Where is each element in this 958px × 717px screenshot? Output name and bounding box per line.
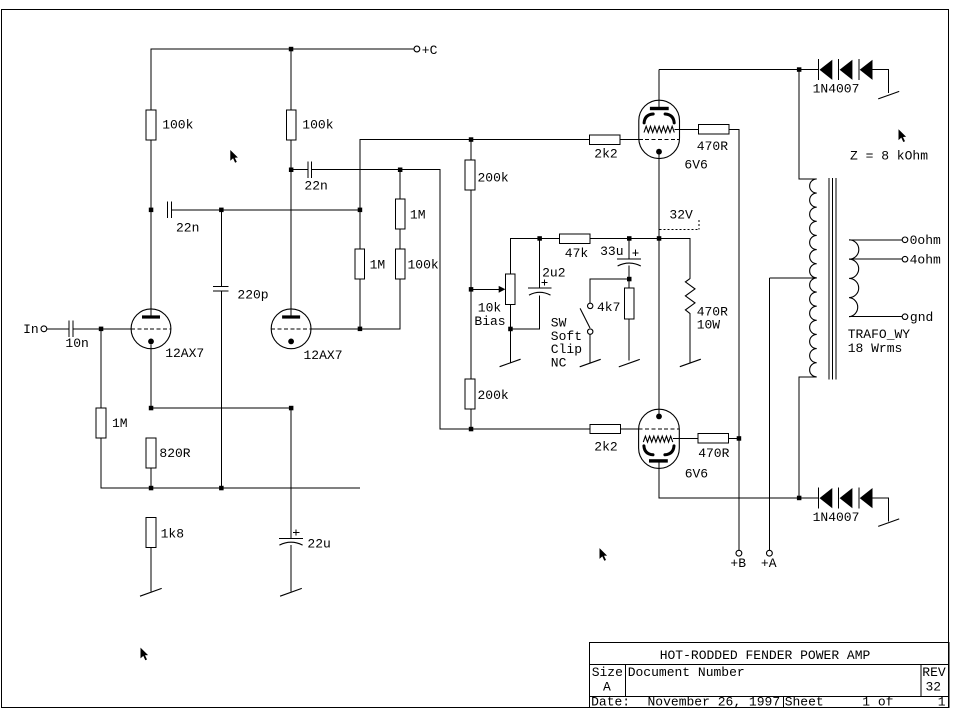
wire R2 to ground rail — [101, 438, 151, 488]
resistor R10 200k (grid leak lower 6V6) — [465, 379, 475, 409]
svg-text:47k: 47k — [565, 246, 589, 261]
junction rail / R5 — [149, 486, 154, 491]
junction bias wiper node — [469, 287, 474, 292]
resistor R2 1M (grid leak U1A) — [96, 408, 106, 438]
resistor R14 2k2 (grid stop upper 6V6) — [590, 135, 620, 144]
svg-text:470R: 470R — [698, 446, 729, 461]
diode D3 1N4007 — [859, 59, 873, 80]
junction 2u2 tap on 47k row — [537, 236, 542, 241]
wire R8 down to grid row U1B — [311, 279, 400, 329]
ground (RV1) — [500, 359, 521, 367]
wire node A to top 6V6 grid row — [360, 140, 590, 210]
svg-text:18 Wrms: 18 Wrms — [848, 341, 903, 356]
ground (C5) — [280, 588, 302, 596]
tube V1 plate bar — [650, 107, 669, 110]
junction rail / C4 column — [219, 486, 224, 491]
wire plate U1B to C6 — [291, 169, 307, 171]
wire V2 screen to R16 — [673, 437, 698, 439]
wire R7 to R8 — [399, 229, 401, 249]
svg-text:12AX7: 12AX7 — [165, 346, 204, 361]
wire R13 to ground — [689, 314, 691, 363]
junction cathode U1B — [289, 406, 294, 411]
tube U1A 12AX7 envelope — [131, 309, 171, 349]
wire center tap to +A terminal — [768, 278, 770, 550]
wire R9 column top — [470, 140, 472, 161]
wire R7 column from C6 net — [399, 170, 401, 199]
junction cathode column on row — [657, 236, 662, 241]
tube V2 beam plates — [644, 446, 653, 455]
junction C6 net / R7 divider — [398, 168, 403, 173]
potentiometer RV1 10k Bias body — [506, 274, 516, 304]
diode D5 1N4007 — [839, 487, 853, 508]
tube V1 6V6 envelope — [639, 100, 680, 158]
wire R17 to grid of V2 — [621, 428, 639, 430]
svg-text:1k8: 1k8 — [161, 526, 184, 541]
svg-text:1 of: 1 of — [862, 695, 893, 710]
junction top grid row / R9 — [469, 137, 474, 142]
wire R6 to grid node U1B — [359, 279, 361, 329]
wire C2 to grid of U1A — [74, 328, 132, 330]
wire grid node down to R2 — [100, 329, 102, 408]
svg-text:1M: 1M — [112, 416, 128, 431]
potentiometer RV1 wiper arrowhead — [499, 286, 506, 293]
junction RV1 bottom / 2u2 return — [508, 327, 513, 332]
wire V1 screen to R15 — [674, 128, 698, 130]
wire R16 to +B column — [729, 437, 739, 439]
capacitor C5 22u polarity + — [293, 530, 299, 536]
resistor R5 1k8 — [146, 518, 156, 548]
svg-text:6V6: 6V6 — [685, 467, 708, 482]
tube U1B plate bar — [282, 315, 300, 318]
svg-text:+C: +C — [422, 43, 438, 58]
tube V2 screen grid zigzag — [643, 436, 672, 442]
resistor R4 820R (cathode U1A) — [146, 438, 156, 468]
svg-text:1: 1 — [938, 695, 946, 710]
wire cathode tie U1A-U1B — [151, 407, 291, 409]
title block column line Sheet — [782, 696, 784, 707]
wire D6 to ground — [873, 498, 889, 522]
resistor R6 1M (paraphase divider upper) — [355, 249, 365, 279]
capacitor C8 33u plates — [617, 258, 641, 260]
wire RV1 top to 47k row — [510, 238, 559, 274]
svg-text:220p: 220p — [237, 287, 268, 302]
switch SW1 lever — [580, 308, 590, 328]
tube U1B 12AX7 envelope — [271, 309, 311, 349]
wire secondary tap gnd — [849, 316, 902, 318]
diode D6 1N4007 — [859, 487, 873, 508]
svg-text:1N4007: 1N4007 — [813, 82, 860, 97]
tube V2 cathode dot — [656, 414, 662, 420]
wire C5 to ground — [290, 545, 292, 592]
svg-text:A: A — [603, 679, 611, 694]
transformer T1 primary winding lower — [810, 278, 817, 377]
svg-text:470R: 470R — [697, 139, 728, 154]
wire bias node to R10 — [470, 289, 472, 380]
wire In terminal to C2 — [47, 328, 69, 330]
svg-text:Sheet: Sheet — [785, 695, 824, 710]
svg-text:2k2: 2k2 — [594, 440, 617, 455]
capacitor C7 polarity + — [541, 279, 547, 285]
svg-text:1N4007: 1N4007 — [813, 510, 860, 525]
svg-text:4k7: 4k7 — [597, 300, 620, 315]
tube U1A grid dashed line — [131, 328, 171, 330]
switch SW1 top contact — [588, 303, 593, 308]
tube V1 control grid dashed — [639, 139, 680, 141]
terminal gnd — [902, 314, 908, 320]
wire RV1 bottom lead — [509, 304, 511, 362]
svg-text:In: In — [23, 322, 39, 337]
transformer T1 secondary winding — [849, 240, 859, 317]
ground (top diodes) — [878, 91, 899, 99]
tube V2 plate bar — [649, 459, 668, 462]
ground (R12) — [619, 359, 640, 367]
wire secondary tap 0ohm — [849, 239, 902, 241]
svg-text:0ohm: 0ohm — [910, 233, 941, 248]
mouse cursor 4 — [141, 648, 149, 661]
junction top rail / primary column — [797, 67, 802, 72]
resistor R1 100k (plate load U1A) — [146, 110, 156, 140]
wire switch node row — [590, 279, 629, 303]
mouse cursor 1 — [230, 150, 238, 163]
svg-text:100k: 100k — [408, 257, 439, 272]
svg-text:November 26, 1997: November 26, 1997 — [648, 695, 781, 710]
wire 2u2 return — [510, 295, 539, 329]
wire C3 to node A — [172, 209, 360, 211]
wire cathode U1A down — [150, 344, 152, 408]
capacitor C5 22u plates — [279, 537, 303, 539]
tube V1 screen grid zigzag — [644, 126, 674, 132]
svg-text:100k: 100k — [162, 118, 193, 133]
transformer T1 core lines — [829, 178, 836, 380]
resistor R16 470R (screen V2) — [698, 434, 728, 443]
tube V2 6V6 envelope (inverted) — [639, 409, 680, 468]
wire bias wiper arrow lead — [471, 288, 499, 290]
wire cathode ground rail — [101, 487, 360, 489]
switch SW1 bottom contact — [588, 329, 593, 334]
svg-text:10n: 10n — [65, 336, 88, 351]
wire R4 to rail — [150, 468, 152, 488]
junction bottom grid row / R10 — [469, 427, 474, 432]
resistor R8 100k (feedback divider) — [395, 249, 405, 279]
svg-text:6V6: 6V6 — [684, 158, 707, 173]
svg-text:12AX7: 12AX7 — [304, 348, 343, 363]
wire C7 top to 47k row — [539, 238, 541, 288]
title block column line Size — [625, 665, 627, 697]
resistor R12 4k7 — [624, 288, 634, 319]
svg-text:+A: +A — [761, 556, 777, 571]
svg-text:22n: 22n — [304, 178, 327, 193]
ground (SW1) — [580, 359, 601, 367]
junction plate U1B / C6 — [289, 168, 294, 173]
svg-text:HOT-RODDED FENDER POWER AMP: HOT-RODDED FENDER POWER AMP — [660, 648, 871, 663]
capacitor C4 220p — [213, 287, 229, 291]
capacitor C2 10n — [69, 321, 73, 338]
junction 4k7 / switch node — [627, 277, 632, 282]
junction +B column / R16 — [737, 436, 742, 441]
tube U1B cathode dot — [288, 339, 294, 345]
capacitor C8 polarity + — [632, 250, 638, 256]
svg-text:2u2: 2u2 — [542, 265, 565, 280]
wire R10 to bottom grid row — [470, 409, 472, 429]
wire +C rail top — [151, 49, 414, 110]
wire node A down to C4 — [220, 210, 222, 287]
wire T1 primary bottom lead — [799, 377, 817, 498]
svg-text:32: 32 — [926, 679, 942, 694]
mouse cursor 3 — [600, 548, 608, 561]
wire R15 to +B column — [729, 129, 739, 550]
ground (R5) — [140, 588, 162, 596]
mouse cursor 2 — [899, 129, 907, 142]
junction grid node U1B — [358, 327, 363, 332]
tube V1 beam plates — [644, 114, 653, 123]
wire R1 to plate of U1A — [150, 140, 152, 316]
wire C8 bottom to 4k7 node — [628, 266, 630, 289]
wire +C rail to R3 — [290, 49, 292, 110]
svg-text:100k: 100k — [302, 118, 333, 133]
wire T1 primary top lead — [799, 70, 817, 179]
wire C6 to lower 6V6 grid column — [312, 170, 590, 429]
svg-text:gnd: gnd — [910, 310, 933, 325]
resistor R15 470R (screen V1) — [699, 125, 729, 134]
wire T1 center tap — [769, 277, 816, 279]
svg-text:33u: 33u — [600, 244, 623, 259]
svg-text:22n: 22n — [176, 221, 199, 236]
tube U1A cathode dot — [148, 339, 154, 345]
title block row line 2 — [590, 695, 949, 697]
diode D1 1N4007 — [819, 59, 833, 80]
wire R14 to grid of V1 — [620, 139, 639, 141]
wire R3 to plate of U1B — [290, 140, 292, 316]
tube U1B grid dashed line — [271, 328, 311, 330]
terminal +B — [736, 550, 742, 556]
terminal +C — [414, 46, 420, 52]
capacitor C6 22n (stage2 coupling) — [308, 161, 312, 178]
resistor R13 470R 10W zigzag — [685, 278, 695, 313]
svg-text:200k: 200k — [478, 388, 509, 403]
wire V2 plate to bottom rail — [659, 463, 819, 498]
junction node A column — [358, 208, 363, 213]
resistor R11 47k — [559, 234, 589, 243]
svg-text:Document Number: Document Number — [628, 665, 745, 680]
svg-text:2k2: 2k2 — [594, 147, 617, 162]
junction grid node U1A — [99, 327, 104, 332]
resistor R3 100k (plate load U1B) — [286, 110, 296, 140]
svg-text:22u: 22u — [307, 537, 330, 552]
junction bottom rail / primary column — [797, 496, 802, 501]
wire top rail V1 plate to diodes — [659, 69, 819, 71]
tube U1A plate bar — [142, 315, 160, 318]
svg-text:1M: 1M — [410, 207, 426, 222]
junction cathode U1A — [149, 406, 154, 411]
wire C8 top lead — [628, 238, 630, 258]
terminal In — [41, 326, 47, 332]
resistor R7 1M (feedback divider) — [395, 199, 405, 229]
svg-text:820R: 820R — [159, 446, 190, 461]
junction plate U1A / C3 — [149, 208, 154, 213]
tube V2 control grid dashed — [639, 428, 680, 430]
tube V1 cathode dot — [656, 149, 662, 155]
wire secondary tap 4ohm — [849, 258, 902, 260]
terminal +A — [767, 550, 773, 556]
wire cathode U1B down to C5 — [290, 408, 292, 538]
resistor R9 200k (grid leak upper 6V6) — [465, 160, 475, 190]
wire C4 to ground rail — [220, 291, 222, 488]
svg-text:+B: +B — [730, 556, 746, 571]
terminal 0ohm — [902, 237, 908, 243]
terminal 4ohm — [902, 256, 908, 262]
svg-text:10W: 10W — [697, 318, 721, 333]
diode D2 1N4007 — [839, 59, 853, 80]
resistor R17 2k2 (grid stop lower 6V6) — [590, 424, 620, 433]
wire node A down to R6 — [359, 210, 361, 249]
svg-text:Size: Size — [592, 665, 623, 680]
svg-text:TRAFO_WY: TRAFO_WY — [848, 327, 911, 342]
svg-text:REV: REV — [922, 665, 946, 680]
junction 33u column on row — [627, 236, 632, 241]
ground (R13) — [680, 359, 701, 367]
svg-text:Bias: Bias — [474, 314, 505, 329]
svg-text:NC: NC — [551, 356, 567, 371]
tube V1 plate lead from rail — [658, 70, 660, 107]
junction +C rail / R3 — [289, 47, 294, 52]
annotation 32V dotted leader — [659, 220, 699, 230]
wire R12 to ground — [628, 319, 630, 361]
capacitor C7 2u2 plates — [528, 287, 552, 289]
title block outer box — [590, 643, 949, 708]
wire 47k row to 470R 10W column — [590, 238, 690, 278]
svg-text:200k: 200k — [478, 171, 509, 186]
diode D4 1N4007 — [819, 487, 833, 508]
wire V1 cathode column — [658, 155, 660, 414]
svg-text:32V: 32V — [669, 207, 693, 222]
wire R5 to ground — [150, 548, 152, 592]
wire D3 to ground — [873, 70, 889, 94]
transformer T1 primary winding upper — [810, 179, 817, 278]
capacitor C3 22n (stage1 coupling) — [168, 202, 172, 219]
ground (bottom diodes) — [878, 519, 899, 527]
svg-text:Date:: Date: — [591, 695, 630, 710]
svg-text:Z = 8 kOhm: Z = 8 kOhm — [850, 149, 928, 164]
wire R9 to bias wiper node — [470, 190, 472, 289]
svg-text:4ohm: 4ohm — [910, 253, 941, 268]
svg-text:1M: 1M — [370, 257, 386, 272]
title block column line REV — [920, 665, 922, 697]
wire SW1 to ground — [589, 335, 591, 363]
junction node A (C3/C4 tap) — [219, 208, 224, 213]
title block row line 1 — [590, 664, 949, 666]
